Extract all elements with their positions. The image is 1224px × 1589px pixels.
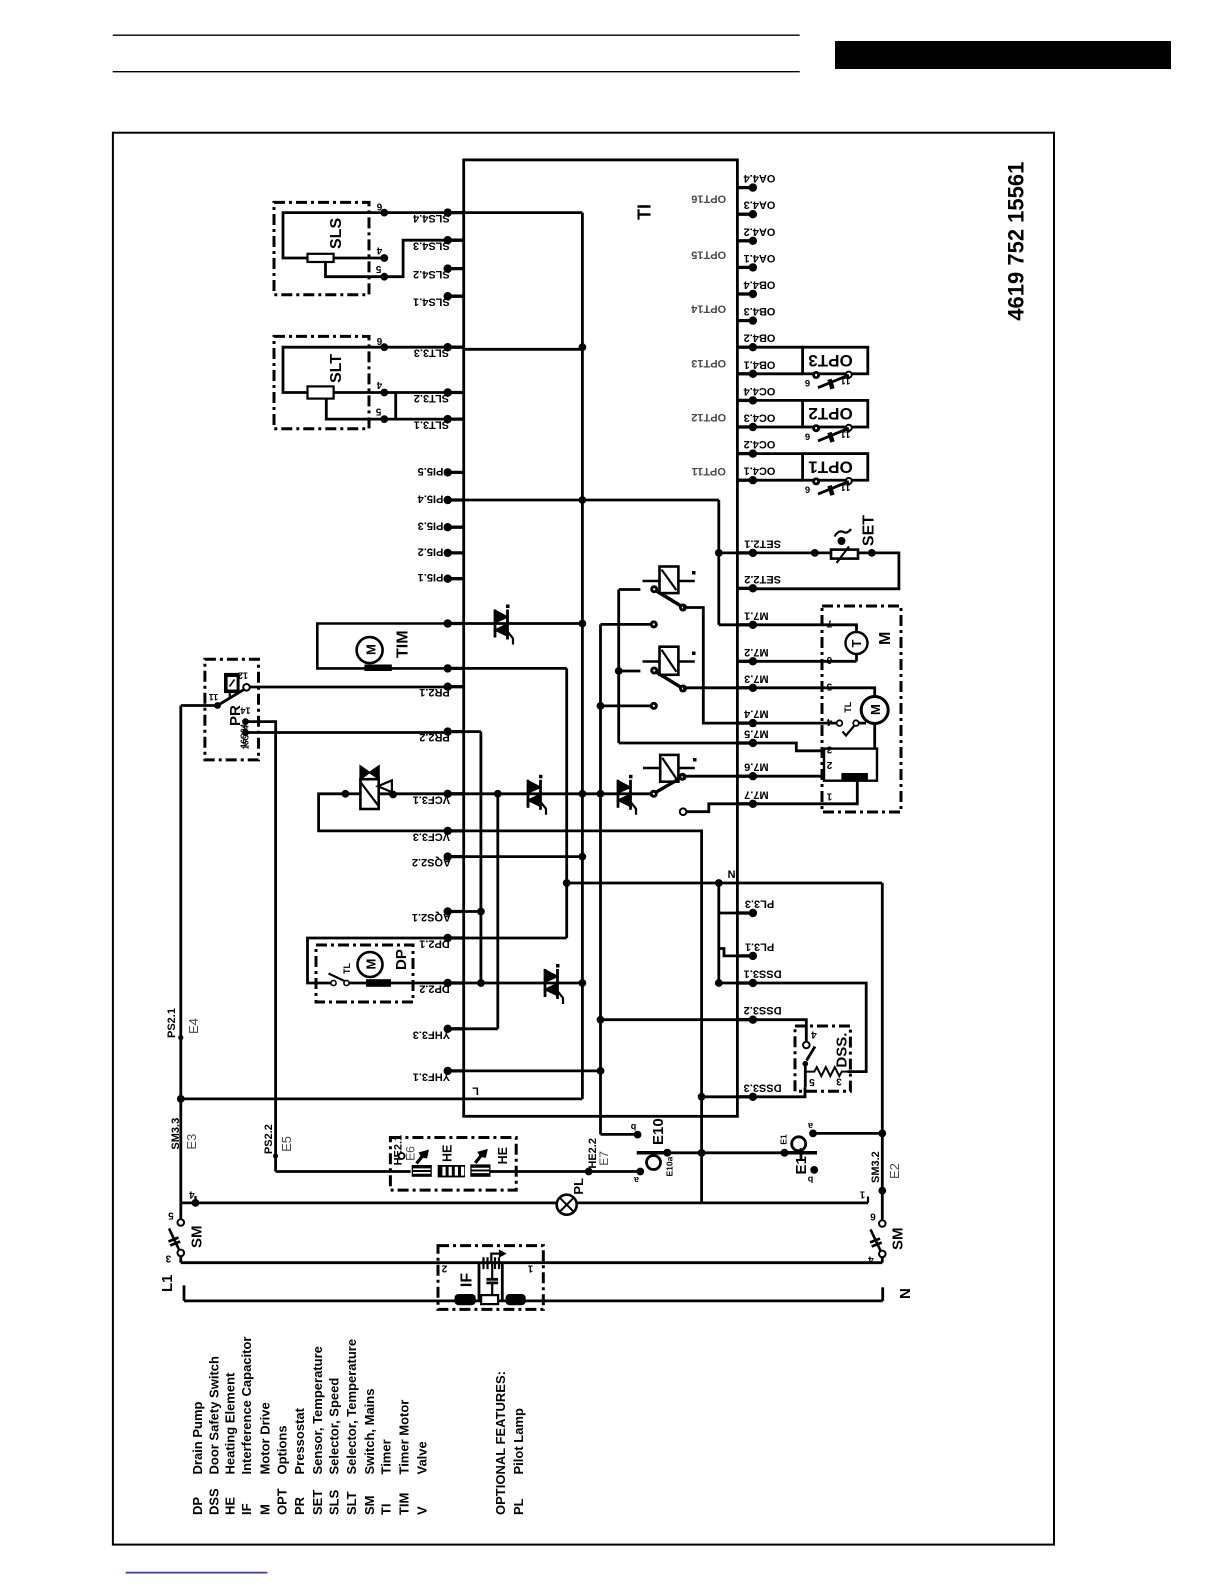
TI right terminal DSS3.2 y1019.7 (737, 1018, 753, 1021)
wire DP switch to bar (349, 982, 366, 985)
wire PR2.1 external (250, 686, 448, 689)
svg-text:4: 4 (376, 379, 382, 390)
svg-text:YHF3.3: YHF3.3 (413, 1028, 450, 1040)
wire DSS3.3 external (753, 1087, 805, 1097)
resistor SLS (308, 254, 334, 262)
PR lever (218, 690, 244, 706)
wire DSS3.3 inside (702, 1095, 738, 1098)
TI left terminal YHF3.1 y1070.9 (448, 1069, 464, 1072)
TI right terminal OB4.4 y294.0 (737, 292, 753, 295)
svg-text:5: 5 (809, 1076, 815, 1087)
wire OPT1 bottom (753, 479, 803, 482)
svg-text:4: 4 (189, 1189, 195, 1200)
svg-text:HE: HE (496, 1147, 510, 1164)
SLT terminal 6 (380, 343, 388, 351)
lamp PL (557, 1195, 577, 1215)
wire YHF3.1 to bus C (464, 1070, 601, 1073)
connector E1 pin b (810, 1166, 818, 1174)
triac T3 (617, 780, 620, 808)
TI right terminal DSS3.1 y983.0 (737, 981, 753, 984)
wire to E1 (702, 1151, 817, 1154)
TI right terminal OC4.2 y453.6 (737, 452, 753, 455)
svg-text:Pilot Lamp: Pilot Lamp (511, 1408, 526, 1475)
wire bus C vertical x600.5 to E10 (599, 624, 602, 1134)
svg-text:E1: E1 (779, 1134, 789, 1145)
TI left terminal PR2.2 y731.6 (448, 730, 464, 733)
switch SM right (879, 1220, 886, 1227)
TI right terminal DSS3.3 y1096.8 (737, 1095, 753, 1098)
svg-text:11: 11 (840, 375, 851, 386)
relay K2 NO contact (679, 685, 687, 693)
TI right terminal M7.4 y723.1 (737, 721, 753, 724)
svg-text:Switch, Mains: Switch, Mains (362, 1389, 377, 1475)
svg-text:PS2.1: PS2.1 (166, 1008, 178, 1038)
svg-text:V: V (414, 1506, 429, 1515)
TI left terminal PI5.1 y578.7 (448, 577, 464, 580)
TI left terminal PI5.3 y527.2 (448, 526, 464, 529)
svg-text:M: M (868, 704, 883, 715)
wire valve to VCF3.1 (345, 792, 360, 795)
svg-text:b: b (630, 1122, 636, 1132)
wire SET2.1 inside (719, 552, 738, 555)
TI right terminal PL3.3 y913.0 (737, 911, 753, 914)
terminal 4 left SM (192, 1199, 200, 1207)
TI right terminal M7.5 y743.0 (737, 741, 753, 744)
TI left terminal SLS4.4 y212.6 (448, 211, 464, 214)
TI left terminal SLT3.2 y392.5 (448, 391, 464, 394)
svg-text:PI5.4: PI5.4 (417, 493, 444, 505)
thermal fuse flag 1 (417, 1154, 425, 1164)
svg-text:Drain Pump: Drain Pump (190, 1401, 205, 1474)
wire SLS resistor to terminal 5 and SLS4.3 (326, 240, 448, 277)
TI left terminal SLT3.1 y419.1 (448, 417, 464, 420)
svg-text:N: N (727, 868, 735, 880)
TI right terminal OC4.3 y427.0 (737, 425, 753, 428)
svg-text:TI: TI (635, 204, 655, 220)
svg-text:Options: Options (275, 1425, 290, 1474)
TI left terminal PR2.1 y686.7 (448, 685, 464, 688)
wire bus E vertical x497.8 to YHF3.3 (496, 794, 499, 1029)
svg-text:Valve: Valve (414, 1441, 429, 1474)
wire relay K3 to M7.6 (683, 775, 738, 778)
wire DSS3.1 inside (719, 982, 738, 985)
connector E10 pin b (634, 1131, 642, 1139)
wire SLS terminal 6 loop (283, 213, 448, 258)
contact NC1 (650, 620, 658, 628)
svg-text:11: 11 (209, 692, 219, 702)
contact M7.7 circle (680, 808, 687, 815)
TI left terminal PI5.4 y500 (448, 498, 464, 501)
svg-text:SLT: SLT (328, 354, 345, 383)
svg-text:PL: PL (571, 1178, 586, 1195)
svg-text:PS2.2: PS2.2 (263, 1124, 275, 1154)
TI left terminal VCF3.3 y830.9 (448, 829, 464, 832)
TIM motor circle (357, 637, 383, 663)
wire SLT resistor to terminal 5 and SLT3.1 (326, 399, 447, 420)
svg-text:Sensor, Temperature: Sensor, Temperature (310, 1346, 325, 1474)
PR pivot contact 11 (214, 702, 221, 709)
DSS pivot vertical (804, 1064, 807, 1088)
svg-text:1: 1 (826, 791, 832, 802)
svg-text:PI5.1: PI5.1 (418, 571, 444, 583)
svg-text:M7.7: M7.7 (744, 788, 768, 800)
svg-text:E1: E1 (793, 1156, 810, 1174)
motor M circle (861, 697, 888, 724)
svg-text:6: 6 (805, 484, 810, 495)
TI left terminal SLS4.3 y240.2 (448, 239, 464, 242)
TI right terminal M7.3 y687.8 (737, 686, 753, 689)
wire M7.1 to tacho (753, 625, 857, 632)
svg-text:PL3.3: PL3.3 (745, 898, 774, 910)
wire bus D vertical x480.9 (479, 732, 482, 983)
thermal TL switch in motor (837, 720, 843, 726)
TI right terminal M7.7 y803.8 (737, 802, 753, 805)
svg-text:PR: PR (292, 1496, 307, 1515)
TI right terminal M7.2 y661.3 (737, 660, 753, 663)
wire tacho to M7.2 (855, 654, 858, 661)
relay K1 NO contact (679, 604, 687, 612)
svg-text:OB4.4: OB4.4 (743, 279, 776, 291)
footer blue link line (126, 1572, 268, 1574)
relay K2 coil (660, 647, 679, 675)
wire L to bus A (181, 1098, 583, 1101)
svg-text:OA4.3: OA4.3 (744, 199, 776, 211)
svg-text:TI: TI (379, 1503, 394, 1515)
motor capacitor block (824, 749, 877, 781)
TI left terminal YHF3.3 y1028.8 (448, 1027, 464, 1030)
SLT terminal 5 (380, 415, 388, 423)
svg-text:N: N (897, 1288, 914, 1299)
connector E10 socket symbol (637, 1151, 668, 1155)
relay K3 coil (660, 755, 678, 782)
wire SLS4.4 into bus A (464, 211, 583, 214)
svg-text:5: 5 (375, 263, 381, 274)
svg-text:DP: DP (393, 949, 410, 970)
header rule top (113, 34, 800, 36)
svg-text:2: 2 (826, 759, 832, 770)
svg-text:1: 1 (527, 1263, 533, 1274)
svg-text:Interference Capacitor: Interference Capacitor (239, 1337, 254, 1475)
svg-text:L1: L1 (159, 1274, 176, 1292)
header rule bottom (113, 71, 800, 73)
svg-text:OPT1: OPT1 (808, 457, 852, 476)
HE entry circle (399, 1153, 405, 1159)
options box OPT2 (803, 400, 868, 427)
wire SM right to rail2 (881, 1257, 884, 1263)
wire DP2.2 across with triac (464, 982, 583, 985)
SLS terminal 5 (380, 273, 388, 281)
TI right terminal SET2.2 y588.3 (737, 587, 753, 590)
svg-text:E3: E3 (184, 1134, 199, 1150)
svg-text:M7.1: M7.1 (744, 609, 768, 621)
wire OPT3 bottom (753, 372, 803, 375)
wire TIM-bottom to bus F (464, 667, 567, 670)
svg-text:4: 4 (376, 244, 382, 255)
PR contact 16 (242, 729, 249, 736)
timer TI box (464, 160, 738, 1116)
TI left terminal AQS2.2 y856.6 (448, 855, 464, 858)
svg-text:OB4.1: OB4.1 (744, 358, 776, 370)
svg-text:OPTIONAL FEATURES:: OPTIONAL FEATURES: (493, 1371, 508, 1515)
wire M7.6 to pin2 (753, 775, 824, 778)
connector E1 pin a (809, 1130, 817, 1138)
TI right terminal M7.6 y776.2 (737, 775, 753, 778)
door switch DSS box (795, 1026, 850, 1091)
svg-text:Selector, Temperature: Selector, Temperature (344, 1339, 359, 1475)
connector E1 socket symbol (781, 1151, 817, 1155)
wire PL rail (181, 1202, 868, 1205)
wire SM left to rail2 (179, 1256, 182, 1263)
terminal L1 (183, 1285, 186, 1301)
TI left terminal PI5.5 y472.4 (448, 471, 464, 474)
relay K1 lever (657, 591, 682, 606)
svg-text:OPT: OPT (275, 1488, 290, 1515)
svg-text:AQS2.1: AQS2.1 (412, 911, 451, 923)
svg-text:AQS2.2: AQS2.2 (412, 856, 451, 868)
svg-text:OC4.4: OC4.4 (743, 385, 776, 397)
svg-text:M7.4: M7.4 (743, 708, 768, 720)
svg-text:SM3.3: SM3.3 (170, 1118, 182, 1150)
svg-text:OPT11: OPT11 (692, 465, 726, 477)
wire SLT jog vertical (394, 393, 397, 420)
svg-text:TL: TL (342, 963, 352, 974)
contact NC2 (650, 702, 658, 710)
TI left terminal AQS2.1 y911.5 (448, 910, 464, 913)
svg-text:M7.2: M7.2 (744, 646, 768, 658)
wire motor to capacitor block (873, 724, 876, 749)
PR bellows (224, 673, 240, 693)
svg-text:6: 6 (376, 335, 382, 346)
svg-text:M7.5: M7.5 (744, 728, 768, 740)
svg-text:Selector, Speed: Selector, Speed (327, 1378, 342, 1475)
svg-text:4619 752 15561: 4619 752 15561 (1004, 162, 1029, 321)
triac T1 (494, 610, 497, 638)
svg-text:TL: TL (843, 701, 853, 712)
triac T2 (527, 780, 530, 808)
TI left terminal SLS4.2 y268.6 (448, 267, 464, 270)
svg-text:16O04: 16O04 (240, 723, 249, 748)
svg-text:OA4.1: OA4.1 (744, 252, 776, 264)
svg-text:3: 3 (165, 1253, 171, 1264)
TI right terminal OB4.3 y320.6 (737, 319, 753, 322)
wire M7.3 to motor top (753, 688, 875, 697)
svg-text:PL: PL (511, 1498, 526, 1515)
svg-text:OPT16: OPT16 (691, 192, 726, 204)
svg-text:E6: E6 (404, 1146, 418, 1161)
wire M7.7 to pin1 (753, 781, 857, 803)
thermal fuse flag 2 (475, 1153, 483, 1163)
svg-text:6: 6 (805, 430, 810, 441)
svg-text:SET2.1: SET2.1 (744, 537, 781, 549)
TI right terminal M7.1 y624.8 (737, 623, 753, 626)
svg-text:SET: SET (860, 515, 877, 546)
svg-text:M: M (877, 632, 894, 645)
svg-text:4: 4 (868, 1254, 874, 1265)
DSS lever (807, 1047, 816, 1061)
wire DSS3.1 external (753, 983, 866, 1072)
wire PR2.2 to bus D (464, 730, 481, 733)
wire M7.7 (686, 804, 738, 812)
wire AQS2.2 to bus A (464, 855, 583, 858)
wire AQS2.1 inside (464, 910, 481, 913)
wire bus H below box to PL rail (700, 1097, 703, 1203)
svg-text:6: 6 (826, 654, 832, 665)
svg-text:DSS.: DSS. (834, 1033, 851, 1068)
IF center body (481, 1295, 498, 1304)
IF discharge arrow (491, 1254, 500, 1262)
switch SM left (178, 1219, 185, 1226)
wire N link from bus F to right rail (567, 882, 883, 885)
switch OPT1 (812, 477, 820, 485)
svg-text:SLS4.2: SLS4.2 (413, 268, 450, 280)
switch OPT2 (812, 424, 820, 432)
svg-text:OPT3: OPT3 (808, 351, 852, 370)
wire DP2.1 loop (308, 938, 448, 983)
wire PR2.2 external jog (246, 722, 448, 733)
svg-text:DSS3.3: DSS3.3 (744, 1081, 782, 1093)
svg-text:Timer: Timer (379, 1439, 394, 1474)
svg-text:Heating Element: Heating Element (223, 1372, 238, 1475)
TI left terminal DP2.1 y938 (448, 936, 464, 939)
wire bus B vertical x718.8 to M7.1 (717, 500, 720, 625)
valve VCF butterfly (360, 766, 369, 779)
wire DP2.2 external (391, 982, 448, 985)
PR contact 14 (242, 718, 249, 725)
svg-text:OC4.3: OC4.3 (744, 412, 776, 424)
connector E5 mark (273, 1153, 278, 1158)
SLS terminal 6 (380, 209, 388, 217)
svg-text:14: 14 (240, 706, 250, 716)
svg-text:Door Safety Switch: Door Safety Switch (207, 1356, 222, 1475)
DSS contact 4 (803, 1042, 810, 1049)
svg-text:1: 1 (859, 1189, 865, 1200)
TI right terminal OA4.1 y267.4 (737, 266, 753, 269)
DSS pivot (803, 1061, 809, 1067)
DSS PTC squiggle (805, 1067, 848, 1076)
wire OPT2 top (753, 399, 803, 402)
wire E10 socket to bus (667, 1151, 701, 1154)
wire OPT3 top (753, 346, 803, 349)
TI left terminal TIM y623.5 (448, 622, 464, 625)
svg-text:12: 12 (238, 671, 248, 681)
wire N right rail (881, 883, 884, 1220)
svg-text:OPT2: OPT2 (808, 404, 852, 423)
wire SET2.1 external (753, 552, 831, 555)
wire relay K2 to M7.3 (683, 686, 737, 689)
heater TCO element 1 (412, 1165, 432, 1177)
svg-text:E2: E2 (887, 1163, 902, 1179)
wire M7.5 bus x618.7 (617, 590, 620, 744)
IF side verticals (478, 1263, 481, 1301)
wire SLT3.3 into bus A (464, 348, 583, 351)
svg-text:T: T (849, 640, 864, 648)
timer motor TIM box (317, 624, 447, 669)
IF choke right (506, 1294, 526, 1305)
wire TIM-top with triac (464, 622, 583, 625)
svg-text:DP: DP (190, 1497, 205, 1515)
TI right terminal OC4.4 y400.4 (737, 399, 753, 402)
PR contact 12 (243, 684, 250, 691)
svg-text:TIM: TIM (395, 630, 412, 658)
svg-text:OPT13: OPT13 (691, 357, 726, 369)
TI right terminal OA4.4 y187.6 (737, 186, 753, 189)
wire HE to E10 (489, 1170, 637, 1173)
TI right terminal OB4.1 y373.8 (737, 372, 753, 375)
svg-text:5: 5 (826, 681, 832, 692)
wire PL3.3 inside (719, 912, 738, 915)
svg-text:Motor Drive: Motor Drive (258, 1402, 273, 1474)
TIM capacitor bar (364, 665, 391, 672)
options box OPT1 (803, 454, 868, 481)
svg-text:SM3.2: SM3.2 (870, 1151, 882, 1183)
svg-text:6: 6 (870, 1211, 876, 1222)
DP motor circle (358, 952, 383, 977)
svg-text:SET2.2: SET2.2 (744, 573, 781, 585)
wire bus A vertical x582 (581, 213, 584, 1099)
IF choke left (455, 1294, 476, 1305)
svg-text:E4: E4 (186, 1018, 201, 1034)
wire TL to motor (859, 722, 866, 725)
wire bus F vertical x566.7 to DP2.1 (565, 668, 568, 938)
svg-text:DSS3.1: DSS3.1 (744, 968, 782, 980)
svg-text:SET: SET (310, 1490, 325, 1515)
svg-text:IF: IF (239, 1503, 254, 1515)
relay K3 NO contact (679, 773, 687, 781)
svg-text:SM: SM (890, 1228, 907, 1251)
svg-text:TIM: TIM (397, 1493, 412, 1515)
wire PR common to left rail (181, 704, 218, 707)
terminal N (881, 1287, 884, 1301)
svg-text:PI5.2: PI5.2 (418, 545, 444, 557)
TI right terminal PL3.1 y955.9 (737, 954, 753, 957)
wire relay K1 to M7.4 (683, 608, 737, 724)
svg-text:7: 7 (826, 618, 832, 629)
svg-text:SLT: SLT (344, 1491, 359, 1515)
wire L1 rail (184, 1300, 883, 1303)
wire PI5.4 across (464, 499, 719, 502)
heater TCO element 2 (470, 1164, 490, 1176)
svg-text:SLS: SLS (328, 218, 345, 249)
svg-text:DSS3.2: DSS3.2 (744, 1004, 782, 1016)
svg-text:OPT15: OPT15 (691, 249, 726, 261)
valve VCF body triangle (378, 780, 392, 792)
motor M box (822, 606, 901, 812)
svg-text:IF: IF (459, 1273, 476, 1287)
resistor SLT (308, 386, 334, 398)
relay K2 pivot contact (650, 667, 658, 675)
wire SLT resistor to terminal 4 and SLT3.2 (334, 391, 448, 394)
svg-text:M: M (364, 644, 379, 655)
svg-text:OA4.4: OA4.4 (743, 172, 776, 184)
TI right terminal SET2.1 y552.9 (737, 551, 753, 554)
svg-text:3: 3 (826, 744, 832, 755)
selector SLT box (274, 336, 369, 428)
DP capacitor bar (366, 979, 391, 987)
svg-text:3: 3 (836, 1076, 842, 1087)
wire VCF3.3 to bus H (464, 831, 702, 1097)
connector E4 mark (178, 1035, 183, 1040)
header black banner (835, 41, 1171, 69)
svg-text:SM: SM (362, 1496, 377, 1516)
TI left terminal SLS4.1 y296.2 (448, 295, 464, 298)
wire PL3.1 inside jog (719, 949, 738, 956)
relay K2 lever (657, 672, 682, 687)
TI left terminal SLT3.3 y347.2 (448, 346, 464, 349)
TI right terminal OC4.1 y480.2 (737, 479, 753, 482)
selector SLS box (274, 202, 369, 294)
options box OPT3 (803, 347, 868, 374)
relay K3 lever (656, 778, 680, 792)
